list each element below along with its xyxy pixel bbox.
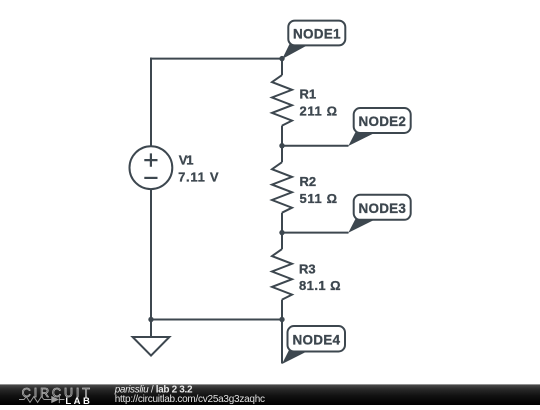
svg-text:211 Ω: 211 Ω (300, 104, 338, 119)
svg-text:NODE4: NODE4 (293, 332, 341, 347)
wire stub to NODE4 (281, 320, 283, 364)
voltage source V1 (130, 146, 219, 189)
node NODE2 callout (348, 108, 410, 146)
svg-text:R2: R2 (300, 174, 317, 189)
node NODE1 callout (282, 21, 345, 59)
svg-text:LAB: LAB (65, 396, 92, 405)
svg-text:V1: V1 (179, 153, 194, 168)
wire stub to NODE3 (282, 232, 349, 234)
svg-text:R3: R3 (299, 261, 316, 276)
junction dot node 2 (279, 143, 284, 148)
svg-text:511 Ω: 511 Ω (300, 191, 338, 206)
svg-text:NODE2: NODE2 (358, 114, 406, 129)
svg-text:7.11 V: 7.11 V (178, 170, 219, 185)
ground (133, 320, 170, 356)
footer bar (0, 384, 540, 405)
resistor R3 (272, 233, 341, 320)
svg-text:NODE3: NODE3 (358, 201, 406, 216)
svg-text:R1: R1 (300, 87, 317, 102)
svg-text:http://circuitlab.com/cv25a3g3: http://circuitlab.com/cv25a3g3zaqhc (115, 394, 265, 405)
junction dot node 3 (279, 230, 284, 235)
svg-text:81.1 Ω: 81.1 Ω (299, 278, 341, 293)
node NODE3 callout (348, 195, 410, 233)
wire left vertical V1 top lead (150, 58, 152, 147)
junction dot node 1 (279, 56, 284, 61)
resistor R1 (272, 59, 337, 146)
junction dot ground (148, 317, 153, 322)
footer logo resistor-diode glyph (19, 396, 65, 403)
node NODE4 callout (282, 326, 345, 364)
wire bottom horizontal from ground to NODE4 (151, 319, 282, 321)
svg-text:NODE1: NODE1 (293, 26, 341, 41)
junction dot node 4 (279, 317, 284, 322)
resistor R2 (272, 146, 337, 233)
wire stub to NODE2 (282, 145, 349, 147)
wire left vertical V1 bottom lead (150, 189, 152, 320)
wire top horizontal from V1 to NODE1 (150, 58, 282, 60)
